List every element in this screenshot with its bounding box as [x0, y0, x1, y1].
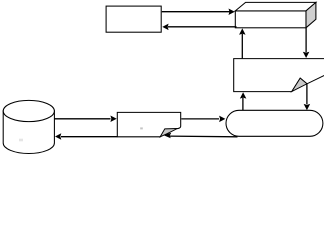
note N1 fold (gray curl): [160, 129, 177, 137]
document D1 (note with curled corner, clipped at right image edge): [234, 59, 324, 92]
wire arrow D: B1 down to document D1: [305, 28, 307, 52]
cylinder DB1 (database, bottom-left): [3, 111, 54, 154]
process box P1 (top-left rectangle): [106, 6, 161, 32]
wire arrow H: N1 to S1: [181, 118, 219, 120]
3D box B1 front face: [235, 11, 306, 28]
wire arrow F: document D1 down to stadium S1: [306, 84, 308, 104]
note N1 faint text dot: [140, 127, 143, 129]
wire arrow B: B1 to P1: [168, 26, 237, 28]
3D box B1 right face (shaded): [306, 2, 316, 27]
wire arrow E: stadium S1 up to document D1: [242, 98, 244, 111]
document D1 curled-corner outline: [292, 75, 324, 92]
wire arrow I: N1 bottom to DB1: [61, 136, 117, 138]
note N1 (bottom-middle, curled corner): [117, 112, 180, 136]
cylinder DB1 faint mark: [19, 139, 23, 142]
3D box B1 top face: [235, 2, 316, 11]
wire arrow G: DB1 to N1: [54, 118, 110, 120]
wire arrow J: S1 bottom-left to note N1 fold: [170, 135, 238, 138]
wire arrow C: document D1 up to B1: [241, 34, 243, 59]
document D1 fold (gray curl): [292, 78, 307, 92]
stadium S1 (terminator, bottom-right): [226, 110, 323, 136]
wire arrow A: P1 to B1: [162, 11, 230, 13]
